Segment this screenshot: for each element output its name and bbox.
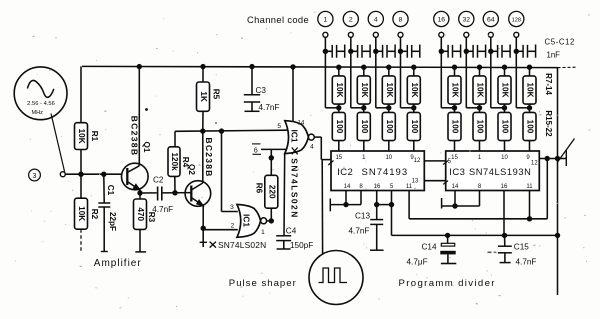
svg-text:100: 100	[526, 120, 535, 134]
svg-text:4: 4	[374, 17, 378, 24]
svg-text:128: 128	[512, 18, 521, 24]
svg-text:SN74LS02N: SN74LS02N	[290, 158, 300, 219]
svg-text:Pulse shaper: Pulse shaper	[229, 278, 297, 289]
svg-text:Q2: Q2	[187, 164, 196, 175]
svg-text:100: 100	[476, 120, 485, 134]
svg-text:Programm divider: Programm divider	[399, 278, 496, 289]
svg-text:14: 14	[452, 184, 459, 190]
svg-text:MHz: MHz	[31, 110, 43, 116]
svg-text:R15-22: R15-22	[544, 110, 553, 137]
svg-text:1: 1	[324, 17, 328, 24]
svg-text:16: 16	[374, 184, 381, 190]
svg-text:6: 6	[254, 146, 258, 155]
svg-text:Amplifier: Amplifier	[94, 258, 142, 269]
svg-text:SN74LS02N: SN74LS02N	[218, 240, 266, 250]
svg-text:100: 100	[335, 120, 344, 134]
svg-text:12: 12	[531, 161, 538, 167]
svg-text:10K: 10K	[335, 82, 344, 97]
svg-text:13: 13	[412, 179, 419, 185]
svg-text:4.7nF: 4.7nF	[349, 227, 370, 236]
svg-text:10K: 10K	[385, 82, 394, 97]
svg-text:16: 16	[501, 184, 508, 190]
svg-text:14: 14	[298, 121, 305, 127]
svg-text:14: 14	[344, 184, 351, 190]
svg-text:R2: R2	[90, 209, 99, 220]
svg-text:15: 15	[335, 155, 342, 161]
svg-text:10K: 10K	[360, 82, 369, 97]
svg-text:R1: R1	[90, 131, 99, 142]
svg-text:Q1: Q1	[142, 142, 151, 153]
svg-text:C2: C2	[153, 175, 164, 184]
svg-text:BC238B: BC238B	[130, 116, 140, 157]
svg-text:SN74LS193N: SN74LS193N	[469, 167, 531, 177]
svg-text:1K: 1K	[199, 91, 208, 102]
svg-text:10: 10	[501, 155, 508, 161]
svg-text:C15: C15	[514, 243, 529, 252]
svg-text:120k: 120k	[170, 152, 179, 171]
svg-text:4.7nF: 4.7nF	[259, 103, 280, 112]
svg-text:2: 2	[349, 17, 353, 24]
svg-text:1nF: 1nF	[547, 51, 561, 60]
svg-text:3: 3	[230, 204, 234, 211]
svg-text:10K: 10K	[77, 206, 86, 221]
svg-text:IC1: IC1	[242, 214, 252, 227]
svg-text:4: 4	[310, 144, 314, 151]
svg-text:15: 15	[451, 155, 458, 161]
svg-text:470: 470	[136, 207, 145, 221]
svg-text:11: 11	[526, 184, 533, 190]
svg-text:C3: C3	[256, 86, 267, 95]
svg-text:SN74193: SN74193	[362, 167, 409, 178]
svg-text:C14: C14	[422, 243, 437, 252]
svg-text:64: 64	[487, 17, 495, 24]
svg-text:10K: 10K	[410, 82, 419, 97]
svg-text:100: 100	[501, 120, 510, 134]
svg-text:4.7μF: 4.7μF	[407, 258, 428, 267]
svg-text:100: 100	[451, 120, 460, 134]
svg-text:IC3: IC3	[449, 167, 465, 178]
svg-text:10K: 10K	[476, 82, 485, 97]
svg-text:BC238B: BC238B	[204, 137, 214, 177]
svg-text:16: 16	[438, 17, 446, 24]
svg-text:3: 3	[33, 173, 37, 180]
svg-text:10: 10	[385, 155, 392, 161]
svg-text:C1: C1	[106, 185, 115, 196]
svg-text:2: 2	[231, 223, 235, 230]
svg-text:1: 1	[261, 229, 265, 236]
svg-text:11: 11	[406, 184, 413, 190]
svg-text:R5: R5	[212, 89, 221, 100]
svg-text:C5-C12: C5-C12	[545, 38, 575, 47]
svg-text:5: 5	[277, 123, 281, 130]
svg-text:100: 100	[410, 120, 419, 134]
svg-text:R7-14: R7-14	[544, 73, 553, 95]
svg-text:22pF: 22pF	[108, 212, 117, 231]
svg-text:10K: 10K	[501, 82, 510, 97]
svg-text:4.7nF: 4.7nF	[516, 258, 537, 267]
svg-text:C4: C4	[286, 226, 297, 235]
svg-text:8: 8	[399, 17, 403, 24]
svg-text:100: 100	[385, 120, 394, 134]
svg-text:10K: 10K	[77, 129, 86, 144]
svg-text:IC2: IC2	[337, 167, 353, 178]
svg-text:Channel code: Channel code	[247, 14, 309, 25]
svg-text:220: 220	[267, 185, 276, 199]
svg-text:12: 12	[414, 158, 421, 164]
svg-text:IC1: IC1	[289, 129, 299, 142]
svg-text:100: 100	[360, 120, 369, 134]
svg-text:2.56 - 4.56: 2.56 - 4.56	[27, 101, 55, 107]
svg-text:10K: 10K	[526, 82, 535, 97]
svg-text:R6: R6	[255, 183, 264, 194]
svg-text:10K: 10K	[451, 82, 460, 97]
svg-text:C13: C13	[355, 211, 370, 220]
svg-text:4.7nF: 4.7nF	[152, 205, 173, 214]
svg-text:150pF: 150pF	[290, 241, 313, 250]
svg-text:32: 32	[463, 17, 471, 24]
